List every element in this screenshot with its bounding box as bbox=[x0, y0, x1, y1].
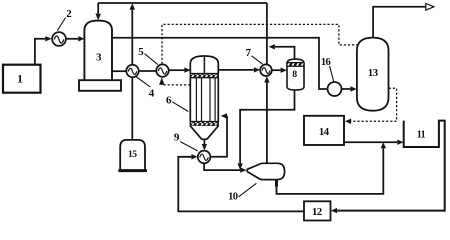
label 2 pointer bbox=[57, 8, 72, 30]
heat exchanger 7 bbox=[260, 64, 272, 76]
label 9 pointer bbox=[174, 132, 198, 151]
reactor 6 dome bbox=[190, 56, 218, 74]
pump 2 bbox=[52, 32, 66, 46]
dashed line exchanger5 to vessel13 bbox=[162, 24, 357, 64]
wire exchanger4 to exchanger5 bbox=[139, 70, 157, 72]
svg-text:7: 7 bbox=[246, 47, 252, 59]
svg-text:16: 16 bbox=[321, 57, 331, 68]
wire exchanger9 recirculation to reactor6 bbox=[210, 113, 227, 157]
wire pump2 to vessel3 bbox=[66, 36, 85, 41]
label 7 pointer bbox=[246, 47, 263, 64]
svg-text:13: 13 bbox=[368, 67, 379, 79]
wire vertical to exchanger7 bbox=[266, 3, 268, 64]
label 4 pointer bbox=[136, 77, 155, 100]
svg-text:14: 14 bbox=[319, 126, 330, 138]
wire vessel13 overhead with open arrow bbox=[373, 4, 434, 38]
svg-text:12: 12 bbox=[312, 206, 323, 218]
wire exchanger5 to reactor6 bbox=[169, 67, 191, 72]
vessel 3 pedestal bbox=[79, 80, 121, 91]
pump 16 bbox=[328, 82, 342, 96]
wire vessel15 to exchanger4 bbox=[131, 77, 133, 140]
svg-text:8: 8 bbox=[292, 70, 297, 80]
box 14 bbox=[304, 116, 344, 145]
reactor 6 bottom tube sheet bbox=[190, 122, 218, 126]
vessel 13 bbox=[357, 38, 389, 111]
vessel 3 bbox=[84, 21, 112, 81]
wire box14 to tank11 bbox=[344, 140, 404, 145]
heat exchanger 9 bbox=[198, 151, 211, 164]
wire pump12 to exchanger9 bbox=[178, 154, 304, 211]
wire box1 to pump2 bbox=[35, 36, 52, 65]
wire reactor cone to exchanger9 bbox=[202, 140, 207, 151]
svg-text:11: 11 bbox=[417, 130, 426, 141]
wire top feed into vessel 3 bbox=[95, 3, 101, 20]
svg-text:5: 5 bbox=[138, 46, 144, 58]
heat exchanger 5 bbox=[156, 64, 168, 76]
wire pump16 to vessel13 bbox=[342, 86, 357, 91]
wire main header y38 to pump16 bbox=[112, 38, 327, 89]
vessel 15 bbox=[118, 140, 147, 171]
reactor 6 shell and tubes bbox=[190, 78, 218, 122]
wire ejector outlet to tank11 riser bbox=[277, 142, 387, 194]
wire reactor6 to exchanger7 bbox=[218, 67, 260, 72]
wire exchanger7 to vessel8 bbox=[272, 68, 287, 73]
ejector 10 bbox=[247, 163, 284, 186]
vessel 8 bbox=[287, 59, 304, 90]
svg-text:9: 9 bbox=[174, 132, 180, 144]
dashed line reactor6 to exchanger5 with arrow bbox=[159, 77, 190, 85]
label 10 pointer bbox=[228, 183, 256, 202]
svg-text:4: 4 bbox=[149, 87, 155, 99]
svg-text:1: 1 bbox=[17, 73, 23, 85]
wire vessel3 to exchanger4 bbox=[112, 70, 126, 72]
svg-text:10: 10 bbox=[228, 192, 238, 203]
label 16 pointer bbox=[321, 57, 334, 82]
wire riser from exchanger4 with up arrow bbox=[130, 3, 136, 64]
wire vessel8 bottom loop to nozzle bbox=[237, 90, 294, 170]
wire top header bbox=[98, 2, 267, 4]
svg-text:6: 6 bbox=[166, 94, 172, 106]
box 1 bbox=[3, 65, 41, 93]
reactor 6 cone bbox=[190, 126, 218, 140]
wire exchanger9 bottom to nozzle bbox=[204, 163, 247, 173]
wire vessel8 top to vertical bbox=[269, 44, 295, 59]
dashed line vessel13 to box14 with arrow bbox=[345, 88, 397, 124]
label 6 pointer bbox=[166, 94, 188, 111]
tank 11 bbox=[331, 121, 445, 214]
pump 12 bbox=[304, 201, 331, 220]
reactor 6 top tube sheet bbox=[190, 74, 218, 78]
svg-text:2: 2 bbox=[66, 8, 72, 20]
svg-text:3: 3 bbox=[96, 52, 102, 64]
label 5 pointer bbox=[138, 46, 158, 64]
wire up arrow into exchanger7 bottom bbox=[264, 76, 269, 163]
heat exchanger 4 bbox=[126, 65, 138, 77]
svg-text:15: 15 bbox=[128, 150, 137, 160]
